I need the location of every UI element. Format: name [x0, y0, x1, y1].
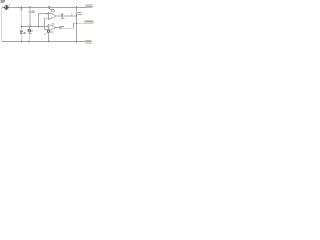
wire C2 to node — [63, 15, 77, 17]
label VCC — [50, 9, 54, 10]
capacitor C2 — [60, 15, 62, 18]
top rail (VCC) — [2, 6, 86, 8]
label U2 — [52, 23, 55, 24]
wire lower input net — [45, 17, 49, 19]
wire x21 vertical — [20, 7, 22, 31]
small mark x71 — [70, 13, 73, 15]
wire U1 output — [56, 15, 61, 17]
wire V2 to bottom — [28, 32, 30, 42]
capacitor C3 — [75, 11, 78, 13]
wire x30 lower — [29, 13, 31, 27]
wire x77 lower — [76, 14, 78, 42]
capacitor C4 — [59, 26, 61, 29]
node dots on mid rail — [21, 25, 44, 27]
wire V3 to bottom — [48, 32, 50, 41]
label C3 — [78, 12, 81, 13]
node ticks bottom rail — [20, 40, 22, 42]
wire U2 lower input — [45, 28, 49, 30]
node junction x30 top — [29, 6, 31, 9]
label U1 — [51, 10, 55, 11]
wire upper input net — [39, 13, 49, 15]
plus mark — [9, 4, 10, 5]
op-amp U1 — [49, 12, 57, 19]
input bar U1 — [46, 13, 49, 15]
wire x30 upper — [29, 7, 31, 11]
label V2 — [31, 30, 33, 31]
diode D1 — [20, 31, 23, 33]
minus bar under V2 — [28, 31, 31, 33]
node dot x77 mid — [76, 22, 78, 24]
capacitor C1 — [29, 10, 32, 12]
node junction x49 rail — [48, 6, 50, 9]
net flag box mid-right — [85, 21, 94, 23]
mid rail — [21, 25, 48, 27]
node dot x77/out1 — [76, 15, 78, 17]
label C2 — [60, 13, 63, 14]
wire diode to bottom rail — [20, 33, 22, 41]
wire x77 upper — [76, 7, 78, 12]
source V2 — [28, 26, 30, 29]
title text top-left — [0, 1, 5, 2]
net flag box bottom-right — [86, 40, 92, 43]
net flag box top-right — [86, 5, 93, 8]
label D1 — [23, 32, 25, 33]
node junction x21 top — [20, 6, 22, 9]
wire C4 to corner — [61, 23, 84, 28]
label C4 — [62, 26, 64, 27]
label C1 — [32, 10, 35, 11]
input bar U2 — [46, 25, 49, 27]
wire U2 output — [56, 27, 60, 29]
source V1 — [5, 6, 9, 10]
background — [0, 0, 95, 47]
wire left vertical — [1, 7, 3, 41]
label V3 — [50, 32, 53, 33]
op-amp U2 — [49, 24, 57, 30]
bottom rail (GND) — [2, 41, 86, 43]
source V3 — [48, 28, 50, 31]
node junction x77 top — [76, 6, 78, 9]
